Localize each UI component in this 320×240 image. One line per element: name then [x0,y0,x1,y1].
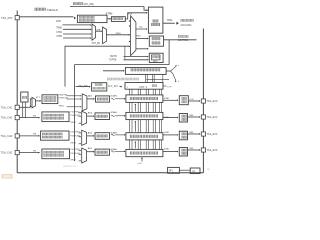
pin TSA_EV0 [201,99,205,103]
wire TGWTP3 to mux row3 [79,132,81,134]
label CK_AR net [73,2,75,5]
svg-text:TM: TM [33,134,36,136]
wire TGWTP4 to mux row4 [79,149,81,151]
wire box A to box B [107,18,110,20]
pin TSA_CH2 [15,151,19,155]
svg-text:TR03: TR03 [70,142,76,144]
box LDO bottom [190,168,200,174]
wire bottom chip border [17,172,203,174]
wire mux M3 to trigger processor [136,28,147,30]
pin TSA_2TR [15,16,19,20]
wire TR04 to mux row4 [79,160,81,162]
box buffer driver row1 [179,96,188,105]
box U2 mode controller [149,36,163,46]
wire internal event CK_AR [70,7,147,11]
wire CTB1 to mux M1 [63,33,91,35]
wire TGWCH3 to mux row3 [79,136,81,138]
svg-text:(CK_AR): (CK_AR) [84,3,94,6]
logo watermark bottom left [2,174,13,179]
box U6 counter CNT [125,83,163,90]
wire TR01 to mux row1 [67,106,81,108]
svg-text:TSA_CH2: TSA_CH2 [1,151,13,155]
wire TGFRE to calibration store [124,59,148,61]
pin TSA_EV2 [201,115,205,119]
wire up arrow between rows 1-2 [134,104,136,111]
svg-text:TRB0: TRB0 [56,28,63,30]
text gray stop analog pullup [107,78,109,80]
pin TSA_CH3 [15,134,19,138]
wire mode controller status out [164,39,197,41]
wire bus pairs counter to converter row1 [129,89,131,95]
wire stub input mux M3 b [129,25,130,27]
wire TGWTP1 to mux row1 [67,95,81,97]
box U4 auto calibration loop control [125,68,166,75]
wire clock from pin TSA_2TR to event selector [19,16,73,18]
svg-text:TGT_BL: TGT_BL [91,43,100,45]
pin TSA_EV6 [201,148,205,152]
wire wavy sample to converter row4 [111,151,114,152]
mux M3 main trigger mux [131,16,136,56]
wire converter to buffer row4 [163,151,177,153]
box B input tracking [111,17,125,22]
svg-text:ETR: ETR [56,20,61,23]
box sample hold row3 [95,133,110,140]
svg-text:TOP: TOP [167,87,172,89]
wire up arrow between rows 2-3 [134,121,136,131]
svg-text:TR02: TR02 [70,122,76,124]
wire TSA_CH3 to input box row3 [19,135,39,137]
wire buffer to pin TSA_EV6 [188,149,200,151]
wire ETR to mux M1 [63,24,91,26]
mux M5 channel mux row3 [82,130,87,145]
svg-text:4C8D: 4C8D [164,132,170,134]
svg-text:TMxCLK: TMxCLK [47,8,58,12]
box U1 trigger processor [148,7,163,33]
svg-text:TSA_EV0: TSA_EV0 [206,100,218,103]
svg-text:4C8D: 4C8D [164,148,170,150]
svg-text:jiexiantu.com: jiexiantu.com [63,165,78,168]
box PGA instrumentation amp row1 [21,92,28,102]
wire TSA_PW into PWM generator [76,86,90,88]
box converter row3 [126,133,163,140]
box sample hold row1 [96,96,110,102]
wire TGWCH2 to mux row2 [79,115,81,117]
wire PWM to counter box [120,86,122,88]
box buffer driver row3 [179,131,187,140]
wire TSA_CH2 to input box row4 [19,152,39,154]
pin TSA_EV4 [201,132,205,136]
wire TGT_BL feedback loop [65,46,129,86]
mux M5 channel mux row2 [82,111,87,125]
wire feedback frame bottom to left [75,64,170,66]
box converter row1 [126,95,163,103]
wire mux M1 to mux M2 [96,30,102,32]
svg-text:TGFRE: TGFRE [109,59,117,61]
wire under control box right [146,79,169,81]
mux M1 trigger source select [92,24,96,40]
text T2 run stop note line1 [178,35,180,37]
svg-text:CKCADC: CKCADC [181,23,192,27]
wire bus pair control to counter a [145,74,147,82]
svg-text:4CAHL: 4CAHL [110,111,118,114]
svg-text:4CAHL: 4CAHL [110,148,118,151]
svg-text:TM: TM [33,115,36,117]
mux M2 trigger select stage 2 [103,27,107,44]
box input conditioning row1 [42,95,58,104]
wire mux M4 out to row1 box [35,100,40,102]
wire into calibration control box [103,70,124,72]
wire mux M3 to mode controller [136,38,148,40]
wire right chip bus [202,29,204,173]
wire box B up to trigger processor [125,13,146,19]
wire counter out right [163,85,166,87]
box buffer driver row4 [179,148,187,157]
svg-text:TSA_CH3: TSA_CH3 [1,134,13,138]
box buffer driver row2 [179,114,187,123]
wire converter to buffer row2 [163,117,177,119]
svg-text:TSA_2TR: TSA_2TR [1,16,13,20]
svg-text:CLK_DIV: CLK_DIV [108,85,118,88]
box bias reference bottom [168,167,180,173]
pin TSA_CH1 [15,105,19,109]
wire bus pairs between converter row1 and row2 [129,102,131,112]
wire converter to buffer row1 [163,99,177,101]
text T1 to CKCADC note line1 [181,19,183,22]
svg-text:TRIG: TRIG [167,20,173,22]
box sample hold row4 [95,149,110,155]
wire mux to sample hold row3 [87,135,94,137]
svg-text:TSA_EV6: TSA_EV6 [206,149,218,152]
svg-text:TR: TR [207,169,210,171]
svg-text:SWTR: SWTR [110,56,117,58]
box input conditioning row4 [42,149,70,159]
wire TR03 to mux row3 [79,143,81,145]
wire TGWCH4 to mux row4 [79,153,81,155]
svg-text:ADJTRIG: ADJTRIG [178,39,188,42]
svg-text:4C8D: 4C8D [164,98,170,100]
box converter row2 [126,112,163,119]
wire TR02 to mux row2 [79,122,81,124]
svg-text:4CAHL: 4CAHL [110,94,118,97]
wire mux to sample hold row2 [87,115,94,117]
mux M5 channel mux row1 [82,94,87,111]
wire stop arrow below converter row4 [141,158,143,162]
wire mux to sample hold row1 [87,98,94,100]
wire wavy sample to converter row3 [111,134,114,135]
wire feedback frame right drop [168,40,170,65]
box U5 PWM generator [92,83,107,91]
wire calibration control outputs cluster [166,70,170,72]
wire stub input mux M3 c [129,41,130,43]
svg-text:TSA_EV2: TSA_EV2 [206,116,218,119]
svg-text:TR04: TR04 [70,160,76,162]
wire bus pairs between converter row2 and row3 [129,120,131,133]
box sample hold row2 [95,113,110,120]
wire mux M3 lower output [136,48,148,50]
wire stub input mux M3 a [129,20,130,22]
box input conditioning row2 [42,112,69,122]
mux M5 channel mux row4 [82,148,87,163]
wire branch TGT_BL down to TGFRE net [124,46,126,59]
wire buffer to pin TSA_EV0 [188,100,200,102]
svg-text:TMG: TMG [136,36,141,38]
box U3 calibration store with inner box [149,53,163,62]
wire TSA_CH0 to input box row2 [19,117,39,119]
wire bus pairs between converter row3 and row4 [129,140,131,150]
svg-text:CTB0: CTB0 [56,36,63,38]
wire PGA legs down [22,102,24,118]
wire single control to counter c [162,74,164,82]
wire SWTR to calibration store [124,56,148,58]
wire left chip border [16,11,18,173]
svg-text:TGWCH2: TGWCH2 [70,115,80,117]
label internal clock TMxCLK [35,8,38,11]
svg-text:TSA_CH1: TSA_CH1 [1,105,13,109]
wire wavy sample to converter row1 [111,98,114,99]
svg-text:TSA_EV4: TSA_EV4 [206,133,218,136]
box input conditioning row3 [41,131,69,140]
box A event select / timing generator [77,15,107,22]
wire converter to buffer row3 [163,134,177,136]
wire trigger output arrow [163,22,175,24]
box converter row4 [126,149,163,156]
wire buffer to pin TSA_EV4 [188,133,200,135]
pin TSA_CH0 [15,116,19,120]
svg-text:CNT 4: CNT 4 [139,85,147,89]
wire buffer to pin TSA_EV2 [188,116,200,118]
wire wavy sample to converter row2 [111,115,114,116]
wire between bottom boxes [179,169,190,171]
wire feedback frame left vertical [74,65,76,161]
wire TGWTP2 to mux row2 [79,112,81,114]
svg-text:TM: TM [33,150,36,152]
wire mux M2 to mux M3 [106,34,129,36]
svg-text:TSA_CH0: TSA_CH0 [1,116,13,120]
wire CTB0 to mux M1 [63,37,91,39]
wire up arrow between rows 3-4 [134,142,136,149]
svg-text:ETRM: ETRM [106,14,113,16]
svg-text:TR01: TR01 [58,105,64,107]
svg-text:CTB1: CTB1 [56,32,63,34]
wire TGWCH1 to mux row1 [67,98,81,100]
mux M4 PGA bypass select row1 [19,106,30,108]
wire mux to sample hold row4 [87,151,94,153]
wire bus pair control to counter b [152,74,154,82]
wire TRB0 to mux M1 [63,28,91,30]
